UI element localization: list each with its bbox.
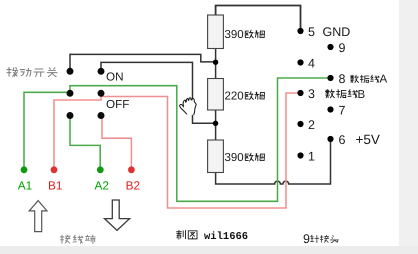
svg-text:A1: A1 [18,179,32,193]
wire: red from switch middle-right contact to pin 3 (data line B) [102,93,300,208]
wire: green from switch middle-left contact to pin 8 (data line A) [70,78,329,201]
svg-text:OFF: OFF [106,98,129,111]
svg-text:1: 1 [308,150,315,164]
svg-text:B1: B1 [48,179,62,193]
terminal B2 [128,166,135,173]
label data line A (Chinese) [350,75,358,82]
wire: R3 bottom to pin 6 +5V with two wire hops [216,139,331,184]
svg-text:8: 8 [339,72,346,86]
DB9 pin 5 [297,28,303,34]
DB9 pin 9 [327,44,333,50]
svg-text:4: 4 [308,57,315,71]
svg-text:390: 390 [225,152,244,164]
terminal B1 [51,166,58,173]
wire: green switch bottom-left contact to A2 terminal [70,117,100,169]
svg-text:220: 220 [225,91,244,103]
switch S1 contact top-right ON [98,68,105,75]
svg-text:+5V: +5V [356,132,380,147]
svg-text:6: 6 [339,133,346,147]
svg-text:A: A [380,74,388,86]
terminal A2 [97,166,104,173]
wire: R2 to R3 through junction J2 [215,110,217,141]
svg-text:A2: A2 [95,179,109,193]
arrow down (outline) [105,200,130,230]
svg-text:7: 7 [339,104,346,118]
resistor R2 220 ohm [208,79,224,111]
label data line B (Chinese) [325,90,334,98]
svg-text:3: 3 [308,87,315,101]
switch S1 contact middle-right OFF [98,90,105,97]
svg-text:390: 390 [225,29,244,41]
switch S1 contact bottom-right [98,112,105,119]
wire: green A1 terminal up to switch middle-left contact [24,92,69,168]
DB9 pin 4 [297,59,303,65]
wire: R1 to R2 through junction J1 [215,48,217,79]
svg-text:9: 9 [339,41,346,55]
svg-text:B2: B2 [126,179,140,193]
junction J1 (R1-R2, to ON contact) [213,60,218,65]
wire: red B1 terminal up to switch middle-right contact [54,94,101,168]
wire: switch top-left contact to R1-R2 junction J1 [70,54,216,71]
svg-text:ON: ON [106,71,124,84]
resistor R1 390 ohm [208,15,224,49]
DB9 pin 3 [297,90,303,96]
DB9 pin 2 [297,121,303,127]
wire: red switch bottom-right contact to B2 terminal [102,117,131,169]
svg-text:5: 5 [308,25,315,39]
label toggle switch (Chinese) [7,68,18,77]
svg-text:wil1666: wil1666 [204,231,248,243]
label wiring terminals (Chinese) [60,235,70,243]
wire: switch ON contact to R2-R3 junction J2 [101,62,216,123]
hand cursor [180,98,196,115]
wire: resistor chain top to pin 5 GND [216,6,301,32]
junction J2 (R2-R3, to ON contact) [213,121,218,126]
svg-text:9: 9 [303,232,310,246]
resistor R3 390 ohm [208,140,224,173]
svg-text:2: 2 [308,118,315,132]
terminal A1 [21,166,28,173]
DB9 pin 6 [327,136,333,142]
watermark (Chinese 'drawn by') wil1666 [177,230,186,239]
arrow up (outline) [29,201,47,232]
svg-text:GND: GND [323,25,351,39]
switch S1 contact bottom-left [67,112,74,119]
DB9 pin 7 [327,106,333,112]
DB9 pin 8 [327,75,333,81]
switch S1 contact middle-left [67,90,74,97]
svg-text:B: B [358,89,366,101]
switch S1 contact top-left [67,68,74,75]
DB9 pin 1 [297,152,303,158]
